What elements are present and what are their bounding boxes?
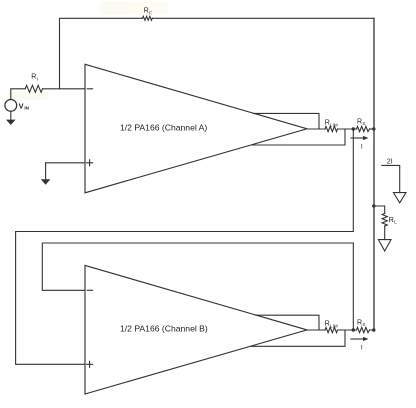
svg-text:S: S (362, 322, 365, 327)
wire RL to ground (384, 226, 386, 240)
source Vin (5, 100, 17, 112)
wire top feedback rail (60, 18, 143, 89)
wire feedback rect top A (254, 113, 320, 129)
wire RS A to rail (370, 128, 375, 130)
wire feedback rect bottom B (251, 330, 345, 346)
ground A noninverting (41, 163, 51, 185)
resistor RLIM B (325, 327, 338, 332)
svg-text:F: F (149, 11, 152, 16)
pin minus tick A (87, 88, 92, 90)
wire output B (307, 329, 325, 331)
label RLIM A (325, 119, 338, 127)
resistor RL (382, 214, 387, 227)
svg-text:R: R (31, 73, 36, 80)
svg-text:I: I (37, 77, 38, 82)
ground Vin (6, 111, 16, 125)
svg-text:I: I (361, 345, 363, 352)
wire RLIM B to node (338, 329, 357, 331)
wire feedback rect bottom A (252, 129, 345, 145)
wire outer loop (A node to B plus) (16, 129, 354, 364)
node B rail dot (372, 328, 375, 331)
resistor RS B (357, 327, 370, 332)
op-amp U2 triangle (85, 265, 307, 394)
wire RL stub (374, 206, 385, 214)
svg-text:I: I (361, 144, 363, 151)
label Vin (19, 101, 30, 110)
wire RLIM A to node (338, 128, 357, 130)
ground RL (open arrow) (378, 240, 391, 251)
resistor RF (143, 16, 153, 20)
svg-text:S: S (362, 121, 365, 126)
svg-text:R: R (357, 319, 362, 326)
wire noninverting input A (46, 162, 85, 164)
wire inner loop (B minus to B node) (42, 243, 353, 330)
label RF (144, 8, 152, 16)
node A rail dot (372, 127, 375, 130)
svg-text:R: R (325, 320, 330, 327)
2I load current indicator (382, 165, 406, 202)
svg-text:1/2 PA166 (Channel A): 1/2 PA166 (Channel A) (120, 123, 207, 133)
resistor RI (25, 85, 42, 92)
svg-text:R: R (325, 119, 330, 126)
svg-text:R: R (389, 217, 394, 224)
svg-text:V: V (19, 101, 24, 110)
current arrow I B (351, 337, 369, 341)
pin plus tick A (87, 160, 93, 166)
pin plus tick B (87, 361, 93, 367)
wire top right segment (152, 17, 374, 19)
svg-text:R: R (357, 118, 362, 125)
wire RS B to rail (370, 329, 375, 331)
svg-text:1/2 PA166 (Channel B): 1/2 PA166 (Channel B) (120, 324, 208, 334)
svg-text:R: R (144, 8, 149, 15)
op-amp U1 triangle (85, 64, 307, 193)
pin minus tick B (87, 289, 92, 291)
wire input to inverting input (43, 88, 86, 90)
resistor RLIM A (325, 126, 338, 131)
current arrow I A (351, 136, 369, 140)
label RLIM B (325, 320, 338, 328)
wire output A (307, 128, 325, 130)
svg-text:IN: IN (24, 106, 29, 111)
svg-text:LIM: LIM (330, 323, 338, 328)
label RL (389, 217, 397, 225)
node RL dot (372, 204, 375, 207)
resistor RS A (357, 126, 370, 131)
wire feedback rect top B (256, 315, 319, 330)
right rail (373, 18, 375, 330)
svg-text:2I: 2I (387, 158, 393, 165)
label RS B (357, 319, 365, 327)
label RS A (357, 118, 365, 126)
node B-out dot (352, 328, 355, 331)
node A-out dot (352, 127, 355, 130)
svg-text:LIM: LIM (330, 122, 338, 127)
wire input left (11, 89, 25, 100)
label RI (31, 73, 38, 81)
